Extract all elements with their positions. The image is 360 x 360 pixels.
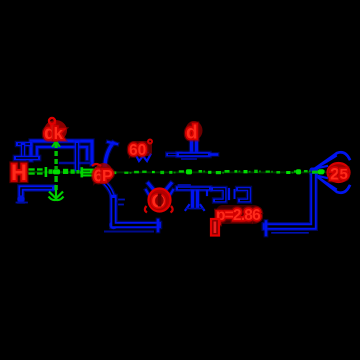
svg-text:H: H <box>11 160 27 185</box>
svg-text:p=2.86: p=2.86 <box>216 207 261 224</box>
svg-text:k: k <box>54 124 64 143</box>
svg-text:2: 2 <box>330 165 339 184</box>
svg-text:d: d <box>186 123 198 144</box>
svg-text:60: 60 <box>129 142 146 159</box>
svg-text:5: 5 <box>340 166 348 183</box>
svg-text:P: P <box>102 168 113 185</box>
